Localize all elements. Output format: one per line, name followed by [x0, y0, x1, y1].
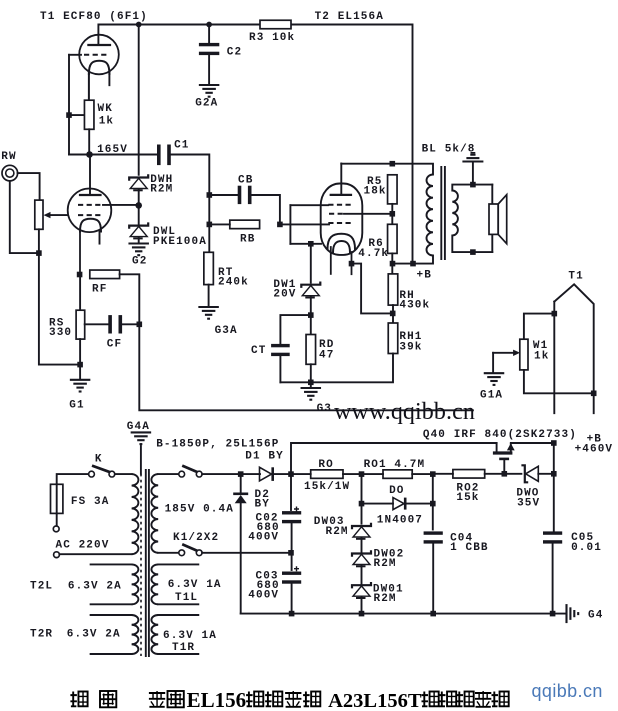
- junction D1 cathode: [288, 471, 294, 477]
- svg-text:R2M: R2M: [374, 558, 397, 570]
- resistor R6: [388, 224, 398, 253]
- svg-text:4.7k: 4.7k: [358, 248, 389, 260]
- svg-text:G1: G1: [69, 400, 84, 412]
- wire RT bottom: [208, 285, 210, 306]
- wire WK bottom: [88, 129, 90, 154]
- svg-text:165V: 165V: [97, 144, 128, 156]
- ground G4: [565, 604, 567, 623]
- wire R5-R6: [391, 204, 393, 224]
- junction RB/CB right: [277, 222, 283, 228]
- resistor R0: [311, 470, 343, 479]
- wire source drop: [553, 443, 555, 532]
- diode DW1: [301, 282, 320, 288]
- capacitor CF: [85, 323, 109, 325]
- svg-text:15k/1W: 15k/1W: [304, 481, 350, 493]
- wire grid1 link: [280, 223, 329, 225]
- svg-text:35V: 35V: [517, 498, 540, 510]
- junction C03/rail: [289, 611, 295, 617]
- svg-text:CF: CF: [107, 339, 122, 351]
- svg-text:RB: RB: [240, 234, 255, 246]
- wire AC to primary: [59, 553, 131, 555]
- resistor R01: [383, 470, 412, 479]
- junction pot/shell: [36, 250, 42, 256]
- svg-text:Q40 IRF 840(2SK2733): Q40 IRF 840(2SK2733): [423, 429, 577, 441]
- diode DW02: [352, 550, 371, 556]
- svg-text:T2L: T2L: [30, 581, 53, 593]
- svg-text:18k: 18k: [364, 186, 387, 198]
- tube T2 heater stub left: [330, 247, 332, 274]
- wire RS bottom: [79, 339, 81, 379]
- resistor RF: [90, 270, 120, 279]
- tube U1B grid lower: [78, 214, 103, 216]
- svg-text:1 CBB: 1 CBB: [450, 542, 489, 554]
- svg-text:T2 EL156A: T2 EL156A: [315, 11, 384, 23]
- junction RH/RH1: [390, 311, 396, 317]
- transformer BL primary: [427, 175, 434, 256]
- tube T2 anode: [340, 164, 342, 195]
- svg-text:39k: 39k: [399, 342, 422, 354]
- pot wiper arrow: [44, 212, 51, 218]
- svg-text:400V: 400V: [248, 590, 279, 602]
- svg-text:K1/2X2: K1/2X2: [173, 532, 219, 544]
- resistor RH1: [388, 323, 398, 354]
- winding T2R 6.3V 2A: [91, 614, 132, 616]
- junction R6/+B: [390, 261, 396, 267]
- svg-text:185V 0.4A: 185V 0.4A: [165, 504, 234, 516]
- resistor WK: [84, 100, 94, 129]
- junction speaker bottom: [470, 249, 476, 255]
- winding T1R 6.3V 1A: [158, 614, 198, 616]
- capacitor C05: [543, 531, 562, 534]
- capacitor CT: [271, 344, 290, 347]
- svg-text:1k: 1k: [534, 351, 549, 363]
- svg-text:T1 ECF80 (6F1): T1 ECF80 (6F1): [40, 11, 148, 23]
- svg-text:400V: 400V: [248, 532, 279, 544]
- wire rectifier riser: [291, 443, 497, 474]
- svg-text:qqibb.cn: qqibb.cn: [532, 681, 603, 701]
- svg-text:K: K: [95, 454, 103, 466]
- potentiometer W1: [520, 339, 528, 370]
- resistor RS: [76, 310, 85, 339]
- svg-text:6.3V 1A: 6.3V 1A: [163, 630, 217, 642]
- svg-text:A23L156T: A23L156T: [328, 690, 422, 711]
- ground G1A: [484, 372, 505, 374]
- svg-text:R2M: R2M: [374, 593, 397, 605]
- svg-text:430k: 430k: [399, 300, 430, 312]
- transformer B primary 220V: [132, 474, 139, 554]
- tube U1A anode: [88, 44, 110, 46]
- junction C04/rail: [430, 611, 436, 617]
- junction C1/CB: [207, 192, 213, 198]
- svg-text:G4A: G4A: [127, 421, 150, 433]
- connector T1 jack outline: [554, 284, 593, 413]
- svg-text:20V: 20V: [273, 289, 296, 301]
- capacitor C2: [208, 25, 210, 44]
- diode DWL: [129, 222, 148, 228]
- ground G1: [70, 379, 91, 381]
- capacitor C1: [157, 145, 161, 166]
- wire to D1: [202, 473, 260, 475]
- tube U1A pentode envelope: [79, 35, 119, 75]
- svg-text:BY: BY: [255, 499, 270, 511]
- wire RD bottom: [310, 364, 312, 387]
- svg-text:FS 3A: FS 3A: [71, 496, 110, 508]
- wire cathode-RS: [79, 275, 81, 311]
- tube U1A grid: [69, 54, 81, 56]
- svg-text:G3A: G3A: [215, 325, 238, 337]
- wire jack shell: [10, 181, 36, 253]
- svg-text:www.qqibb.cn: www.qqibb.cn: [334, 399, 475, 425]
- svg-text:330: 330: [49, 327, 72, 339]
- svg-text:R2M: R2M: [326, 526, 349, 538]
- junction DW1/CT: [308, 312, 314, 318]
- transformer BL secondary: [452, 191, 458, 236]
- svg-text:G1A: G1A: [480, 390, 503, 402]
- junction RF/cathode: [77, 272, 83, 278]
- junction D0 right: [430, 501, 436, 507]
- wire feedback: [139, 324, 473, 410]
- junction D0 left: [359, 501, 365, 507]
- tube U1B anode: [89, 155, 91, 196]
- tube U1A cathode lead: [88, 73, 90, 100]
- winding 185V: [151, 474, 158, 553]
- svg-text:B-1850P, 25L156P: B-1850P, 25L156P: [156, 439, 279, 451]
- junction +B corner: [551, 440, 557, 446]
- wire D1 out: [274, 473, 292, 475]
- transistor Q40 MOSFET: [496, 443, 498, 452]
- svg-text:G2: G2: [132, 256, 147, 268]
- svg-text:CT: CT: [251, 345, 266, 357]
- capacitor C04: [424, 531, 443, 534]
- fuse FS 3A: [51, 484, 63, 513]
- junction RS/pot: [77, 362, 83, 368]
- pot W1 wiper: [493, 352, 514, 354]
- wire K left: [57, 474, 89, 484]
- svg-text:T1R: T1R: [172, 642, 195, 654]
- capacitor C02: [290, 474, 292, 510]
- diode D2: [240, 474, 242, 493]
- junction 165V/anode: [86, 151, 93, 158]
- junction C02/C03: [288, 550, 294, 556]
- junction R01/R02: [430, 471, 436, 477]
- svg-text:EL156: EL156: [187, 688, 247, 711]
- connector RW input jack: [2, 165, 18, 181]
- svg-text:+B: +B: [417, 270, 432, 282]
- tube U1B cathode: [80, 219, 101, 232]
- junction top-rail/DWH: [136, 22, 142, 28]
- svg-text:RO: RO: [318, 459, 333, 471]
- node 165V line: [69, 154, 158, 156]
- resistor R02: [453, 470, 485, 479]
- potentiometer RW volume: [35, 200, 43, 229]
- wire source rail: [511, 442, 554, 444]
- svg-text:RF: RF: [92, 284, 107, 296]
- svg-text:G4: G4: [588, 610, 603, 622]
- svg-text:G3: G3: [317, 403, 332, 415]
- junction W1 bottom: [591, 391, 597, 397]
- wire FS bottom: [56, 513, 58, 526]
- transformer BL core: [440, 167, 442, 259]
- terminal AC top: [53, 526, 59, 532]
- wire gate-DW0: [504, 473, 521, 475]
- wire W1 top: [524, 314, 554, 340]
- svg-text:T2R: T2R: [30, 629, 53, 641]
- tube T2 cathode arcs: [328, 234, 356, 249]
- ground G3: [301, 387, 322, 389]
- wire W1 wiper ground: [492, 353, 494, 373]
- svg-text:D1 BY: D1 BY: [245, 451, 284, 463]
- svg-text:G2A: G2A: [195, 98, 218, 110]
- junction anode/R5: [390, 161, 396, 167]
- svg-text:R3 10k: R3 10k: [249, 32, 295, 44]
- wire CT branch: [280, 315, 310, 343]
- svg-text:CB: CB: [238, 175, 253, 187]
- winding T1L 6.3V 1A: [158, 563, 198, 565]
- wire RH-RH1: [392, 305, 394, 323]
- junction RB left: [207, 222, 213, 228]
- junction top-rail/C2: [206, 22, 212, 28]
- diode D1: [260, 467, 272, 481]
- tube U1B triode envelope: [68, 189, 112, 233]
- tube U1B heater stub: [99, 231, 101, 244]
- svg-text:DO: DO: [389, 485, 404, 497]
- ground G2: [128, 242, 149, 244]
- ground speaker: [470, 154, 475, 156]
- node PSU ground rail: [241, 613, 566, 615]
- svg-text:WK: WK: [98, 103, 113, 115]
- resistor RT: [204, 252, 214, 284]
- tube T2 grid1: [328, 204, 351, 206]
- junction R0/R01: [359, 471, 365, 477]
- junction CF/feedback: [137, 322, 143, 328]
- svg-text:RW: RW: [1, 151, 16, 163]
- wire RF right: [120, 274, 140, 324]
- resistor R5: [388, 175, 398, 204]
- junction +B/supply: [410, 261, 416, 267]
- tube T2 grid2: [329, 213, 344, 215]
- svg-text:C2: C2: [227, 47, 242, 59]
- tube T2 EL156 envelope: [321, 184, 363, 255]
- junction grid/WK tap: [66, 112, 72, 118]
- svg-text:AC 220V: AC 220V: [56, 540, 110, 552]
- capacitor C03: [291, 553, 293, 570]
- wire DW0 right: [538, 473, 554, 475]
- junction gate: [502, 471, 508, 477]
- diode DW03: [352, 523, 371, 529]
- wire DW1 bottom: [310, 297, 312, 335]
- tube U1A heater stub: [108, 73, 110, 85]
- wire DW02-DW01: [361, 566, 363, 585]
- wire DWH-DWL: [138, 189, 140, 225]
- ground G2A: [199, 84, 220, 86]
- resistor RD: [306, 335, 316, 365]
- wire D0 branch left: [361, 474, 363, 523]
- tube T2 cathode lead: [351, 252, 353, 274]
- wire anode line: [341, 164, 433, 175]
- node B+ top rail: [98, 25, 412, 264]
- junction W1 top: [552, 311, 558, 317]
- resistor RB: [230, 220, 260, 229]
- svg-text:T1L: T1L: [175, 592, 198, 604]
- junction speaker top: [470, 182, 476, 188]
- junction cathode bias: [308, 241, 314, 247]
- tube U1A cathode: [89, 61, 110, 74]
- diode D0: [362, 503, 394, 505]
- tube U1B cathode lead: [79, 231, 81, 275]
- caption text: [70, 692, 77, 708]
- wire jack hot: [18, 173, 40, 200]
- switch K1 lower: [179, 550, 185, 556]
- svg-text:BL 5k/8: BL 5k/8: [422, 144, 476, 156]
- svg-text:T1: T1: [568, 271, 583, 283]
- svg-text:+460V: +460V: [575, 444, 614, 456]
- svg-text:6.3V 2A: 6.3V 2A: [67, 629, 121, 641]
- wire DW01 bottom: [361, 597, 363, 613]
- wire speaker right: [491, 185, 493, 253]
- terminal AC bottom: [54, 552, 60, 558]
- junction C05/rail: [550, 611, 556, 617]
- wire DWH drop: [138, 25, 140, 175]
- transformer B core: [140, 474, 142, 656]
- junction DW0/source: [551, 471, 557, 477]
- wire DW03-DW02: [361, 538, 363, 552]
- junction cathode EL156: [349, 261, 355, 267]
- node +B line: [393, 256, 434, 264]
- diode DWH: [129, 174, 148, 180]
- wire R6 bottom: [391, 253, 393, 274]
- switch K1 upper: [179, 471, 185, 477]
- resistor R3: [260, 20, 291, 29]
- junction zeners/rail: [359, 611, 365, 617]
- wire to DW1: [310, 244, 312, 283]
- wire cathode to divider: [352, 264, 393, 314]
- diode DW01: [352, 582, 371, 588]
- svg-text:6.3V 1A: 6.3V 1A: [168, 579, 222, 591]
- capacitor CB: [209, 194, 238, 196]
- wire grid drop: [68, 55, 70, 155]
- svg-text:6.3V 2A: 6.3V 2A: [68, 581, 122, 593]
- wire RH1 bottom: [280, 354, 393, 383]
- svg-text:240k: 240k: [218, 277, 249, 289]
- wire W1 bottom: [524, 370, 594, 393]
- wire K to primary: [115, 473, 132, 475]
- wire cathode link: [290, 243, 321, 245]
- tube T2 grid3: [328, 222, 351, 224]
- junction grid/DWH: [135, 202, 142, 209]
- svg-text:0.01: 0.01: [571, 542, 602, 554]
- svg-text:1k: 1k: [99, 116, 114, 128]
- wire C1 out: [171, 155, 210, 196]
- wire K1 lower out: [202, 552, 291, 554]
- ground G3A: [198, 306, 219, 308]
- svg-text:C1: C1: [174, 140, 189, 152]
- wire CB-RB column: [208, 195, 210, 252]
- wire CT bottom: [279, 356, 281, 382]
- speaker LS: [489, 204, 498, 234]
- svg-text:RO1 4.7M: RO1 4.7M: [364, 459, 426, 471]
- svg-text:1N4007: 1N4007: [377, 515, 423, 527]
- junction screen/R5R6: [390, 211, 396, 217]
- wire DWL-G2: [138, 238, 140, 243]
- svg-text:R2M: R2M: [150, 184, 173, 196]
- svg-text:15k: 15k: [456, 492, 479, 504]
- junction D1/D2: [238, 471, 244, 477]
- tube U1B grid upper: [78, 204, 103, 206]
- resistor RH: [388, 274, 398, 305]
- svg-text:47: 47: [319, 350, 334, 362]
- diode DW0: [521, 465, 528, 482]
- svg-text:PKE100A: PKE100A: [153, 236, 207, 248]
- wire pot bottom: [39, 229, 80, 364]
- wire D0 right drop: [432, 474, 434, 529]
- junction G3: [308, 380, 314, 386]
- winding T2L 6.3V 2A: [91, 563, 132, 565]
- wire WK tap: [69, 114, 85, 116]
